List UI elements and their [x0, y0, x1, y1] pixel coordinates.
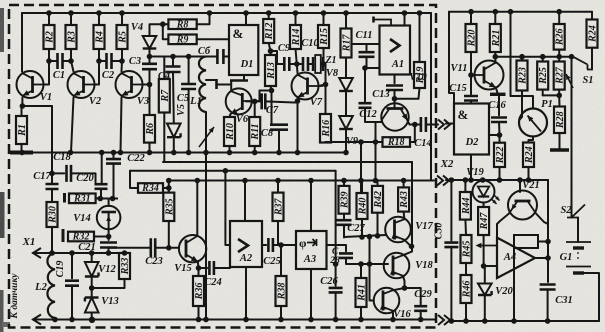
junction: [362, 65, 368, 71]
junction: [203, 150, 209, 156]
wire V15 emitter: [197, 262, 200, 269]
wire R47 to A4 input: [483, 235, 485, 266]
wire rail to R17: [345, 13, 347, 29]
resistor R38: [276, 276, 288, 306]
wire Z1 node to V7 base: [319, 85, 326, 87]
junction: [119, 10, 125, 16]
wire V10 collector left: [376, 120, 383, 123]
junction: [418, 317, 424, 323]
wire S1 to S2: [571, 57, 573, 218]
wire V14 source to C21: [108, 229, 110, 240]
capacitor C29: [414, 306, 427, 311]
junction: [276, 150, 282, 156]
resistor R45: [461, 235, 473, 263]
wire bus4 to R35: [168, 181, 170, 193]
wire V18 emitter down: [403, 276, 405, 288]
junction: [96, 58, 102, 64]
wire: [49, 60, 58, 62]
wire C5 bottom to mid rail: [188, 89, 190, 153]
wire: [343, 181, 345, 186]
wire V4 cathode: [149, 49, 151, 57]
junction: [269, 88, 275, 94]
junction: [402, 10, 408, 16]
wire to S1: [495, 56, 573, 58]
junction: [343, 10, 349, 16]
junction: [556, 93, 562, 99]
wire V2 emitter to mid rail: [71, 98, 74, 153]
resistor R1: [16, 116, 28, 144]
wire: [542, 57, 544, 62]
wire down to C12: [364, 68, 366, 101]
junction: [196, 317, 202, 323]
capacitor C24: [209, 261, 214, 275]
junction: [480, 177, 486, 183]
junction: [545, 239, 551, 245]
capacitor C18: [67, 165, 72, 182]
wire R33 to zener mid: [92, 279, 125, 288]
wire V14 gate pin: [108, 199, 110, 207]
junction: [195, 178, 201, 184]
wire: [498, 122, 501, 135]
capacitor C9: [284, 57, 289, 71]
resistor R26: [554, 24, 566, 50]
wire bus3 to A2 input: [225, 171, 230, 245]
wire X2 to D2 input: [446, 123, 454, 125]
junction: [147, 150, 153, 156]
junction: [223, 168, 229, 174]
wire bus4: [169, 180, 434, 182]
junction: [294, 61, 300, 67]
wire: [91, 277, 93, 298]
resistor R20: [466, 24, 478, 52]
wire right top rail: [449, 11, 592, 13]
junction: [89, 250, 95, 256]
junction: [295, 150, 301, 156]
wire to C16: [498, 96, 500, 116]
resistor R21: [490, 24, 502, 52]
junction: [186, 150, 192, 156]
resistor R33: [119, 253, 131, 279]
wire: [343, 214, 345, 219]
wire V17 emitter to bus2 drop: [404, 240, 411, 247]
wire right bottom rail: [450, 320, 599, 322]
junction: [367, 261, 373, 267]
inductor L1: [189, 57, 206, 113]
wire C20 bottom down: [100, 189, 102, 199]
trimmer arrow R27: [566, 74, 573, 88]
wire R13 node to C7 line: [260, 91, 272, 102]
wire R8 to rail: [197, 13, 210, 24]
wire: [188, 57, 190, 85]
capacitor C6: [217, 49, 223, 64]
junction: [68, 10, 74, 16]
wire feedback right: [538, 241, 548, 243]
transistor V3: [116, 71, 150, 107]
resistor R46: [461, 275, 473, 303]
wire: [403, 181, 405, 188]
junction: [367, 234, 373, 240]
junction: [358, 261, 364, 267]
wire D1 top pin: [245, 13, 247, 25]
junction: [295, 98, 301, 104]
wire R35 to V15 base line: [168, 221, 170, 248]
junction: [68, 58, 74, 64]
capacitor C31: [540, 285, 556, 290]
wire R40 bottom: [361, 219, 363, 237]
junction: [401, 178, 407, 184]
junction: [243, 10, 249, 16]
junction: [468, 9, 474, 15]
wire: [542, 90, 544, 96]
junction: [110, 196, 116, 202]
wire R13 node to C8: [271, 91, 273, 126]
wire bus3 left end to R34: [130, 171, 138, 188]
wire V5 to mid rail: [173, 139, 175, 152]
junction: [147, 82, 153, 88]
resistor R3: [66, 25, 78, 49]
resistor R40: [357, 193, 369, 219]
resistor R17: [341, 29, 353, 58]
wire: [48, 49, 50, 61]
junction: [358, 178, 364, 184]
terminal bar R31: [63, 193, 66, 203]
wire V7 collector: [296, 64, 299, 73]
junction: [481, 263, 487, 269]
wire: [558, 12, 560, 24]
wire V17 base line: [344, 235, 386, 237]
wire: [420, 311, 422, 320]
wire to V18 collector: [403, 246, 412, 255]
junction: [333, 261, 339, 267]
wire: [280, 306, 282, 320]
wire: [63, 60, 72, 62]
wire to V16 base: [370, 236, 374, 300]
junction: [147, 54, 153, 60]
junction: [323, 82, 329, 88]
wire: [96, 197, 101, 199]
wire R30 to X1 line: [51, 227, 53, 253]
junction: [166, 245, 172, 251]
capacitor C27: [337, 220, 352, 225]
A1 aux top wire: [374, 20, 392, 26]
junction: [468, 72, 474, 78]
op-amp A4: [497, 238, 535, 278]
wire R17 to V8: [345, 58, 347, 79]
resistor R19: [414, 62, 426, 88]
transistor V18: [384, 253, 434, 279]
wire: [547, 258, 549, 282]
junction: [278, 317, 284, 323]
wire R37 bottom: [277, 221, 279, 245]
wire C23 to V15 base: [155, 247, 179, 249]
resistor R4: [94, 25, 106, 49]
junction: [89, 285, 95, 291]
wire L1 column to bottom rail: [205, 153, 207, 320]
junction: [166, 178, 172, 184]
wire: [268, 13, 270, 19]
junction: [268, 48, 274, 54]
wire V17 collector to R43: [403, 212, 406, 220]
crystal Z1: [313, 55, 337, 73]
transistor V14 FET: [73, 206, 120, 230]
wire C8 to rail: [278, 130, 280, 153]
wire right column down: [547, 180, 549, 258]
wire R18 right up: [410, 125, 415, 143]
wire V3 collector to C2 node: [121, 61, 124, 72]
capacitor C10: [303, 57, 308, 71]
junction: [160, 21, 166, 27]
connector X1 arrow bottom: [33, 315, 41, 325]
wire: [99, 60, 107, 62]
wire: [465, 263, 467, 275]
dashed border left block: [9, 5, 436, 328]
resistor R6: [144, 115, 156, 143]
wire to V10 base: [394, 99, 396, 109]
wire: [277, 181, 279, 193]
junction: [186, 54, 192, 60]
diode V12: [85, 262, 117, 277]
junction: [111, 150, 117, 156]
junction: [46, 58, 52, 64]
capacitor C2: [107, 53, 112, 69]
wire bus to V21 base: [519, 180, 521, 192]
junction: [19, 150, 25, 156]
wire V6 base right: [252, 100, 261, 102]
wire: [494, 52, 496, 57]
junction: [359, 234, 365, 240]
wire: [21, 106, 23, 116]
capacitor C7: [262, 93, 266, 109]
wire R23 to P1: [519, 91, 522, 121]
wire: [394, 90, 396, 99]
junction: [412, 122, 418, 128]
wire tap to V6 collector: [217, 84, 232, 86]
wire R7 bottom to bus2: [163, 113, 165, 163]
transistor V6: [226, 88, 252, 125]
wire: [361, 181, 363, 194]
wire: [52, 172, 64, 174]
resistor R34: [138, 183, 163, 194]
transistor V2: [68, 71, 102, 107]
capacitor C5: [181, 84, 196, 89]
wire bus2 drop to V17 emitter: [411, 162, 413, 246]
wire R20 to C15: [470, 52, 472, 94]
wire to A1 lower input: [365, 67, 380, 69]
wire: [254, 146, 256, 153]
junction: [497, 177, 503, 183]
junction: [321, 61, 327, 67]
wire: [71, 253, 73, 278]
wire: [426, 124, 438, 126]
junction: [358, 139, 364, 145]
junction: [321, 10, 327, 16]
wire C6 to D1: [223, 56, 229, 58]
wire: [113, 153, 115, 158]
junction: [196, 265, 202, 271]
resistor R24: [523, 143, 535, 168]
wire: [48, 13, 50, 25]
transistor V16: [374, 288, 412, 320]
wire rail to R24: [591, 12, 593, 20]
ground bar: [10, 151, 33, 155]
wire left rail to V1 collector: [21, 13, 23, 72]
capacitor C13: [386, 86, 403, 91]
junction: [89, 317, 95, 323]
wire: [558, 90, 560, 96]
wire V16 emitter to rail: [392, 311, 394, 320]
junction: [373, 139, 379, 145]
wire V6 base line: [246, 100, 262, 102]
junction: [402, 285, 408, 291]
adjustable core arrow L1: [199, 127, 214, 147]
wire rail to D2: [449, 12, 454, 104]
artifact: [0, 8, 4, 52]
wire A3 out to C28: [327, 245, 347, 251]
junction: [119, 58, 125, 64]
junction: [308, 317, 314, 323]
resistor R35: [163, 193, 175, 221]
wire S2 to G1: [577, 218, 579, 243]
connector X2 arrow low: [437, 176, 449, 186]
wire: [464, 180, 466, 192]
wire: [229, 146, 231, 153]
transistor V11: [471, 61, 504, 90]
resistor R42: [372, 186, 384, 213]
junction: [511, 318, 517, 324]
wire: [71, 286, 73, 320]
wire R18 line to bus4: [360, 142, 362, 181]
wire C21 to X1 line: [108, 248, 110, 254]
wire V10 collector column to bus4: [375, 122, 377, 181]
wire R15 bottom: [323, 48, 325, 64]
junction: [508, 9, 514, 15]
artifact: [2, 322, 10, 327]
junction: [493, 54, 499, 60]
wire mid rail: [10, 152, 346, 154]
transistor V21: [508, 180, 540, 220]
wire V6 collector to D1 bar: [230, 81, 232, 92]
wire V16 collector up: [393, 288, 405, 290]
resistor R47: [478, 207, 490, 235]
junction: [52, 317, 58, 323]
capacitor C25: [268, 238, 273, 252]
wire A2 bottom pin: [245, 267, 247, 320]
junction: [118, 150, 124, 156]
capacitor C15: [464, 96, 478, 101]
junction: [266, 10, 272, 16]
wire: [558, 95, 560, 106]
wire: [172, 57, 174, 67]
junction: [171, 150, 177, 156]
junction: [463, 177, 469, 183]
wire rail drop to bus4: [430, 13, 432, 181]
junction: [49, 250, 55, 256]
wire C27 down: [343, 225, 345, 238]
resistor R32: [68, 232, 94, 243]
wire: [558, 57, 560, 62]
junction: [341, 178, 347, 184]
junction: [49, 171, 55, 177]
wire bottom rail: [33, 319, 436, 321]
transistor V17: [385, 217, 433, 243]
capacitor C14: [421, 117, 426, 132]
resistor R7: [159, 79, 171, 113]
wire: [163, 187, 169, 189]
wire: [308, 63, 313, 65]
wire R32 to V14 source: [94, 236, 109, 238]
junction: [375, 233, 381, 239]
wire: [198, 268, 200, 276]
resistor R36: [193, 276, 205, 306]
wire: [465, 303, 467, 321]
wire V11 emitter: [496, 88, 498, 94]
wire V9 to rail: [345, 129, 347, 153]
wire D2 output: [489, 134, 500, 136]
wire V2 collector to C1 node: [71, 61, 74, 72]
junction: [207, 10, 213, 16]
A4 input arrow: [478, 245, 497, 247]
junction: [122, 250, 128, 256]
wire: [51, 173, 53, 184]
wire C28 to V18 base: [346, 258, 388, 264]
resistor R28: [554, 107, 566, 134]
junction: [482, 318, 488, 324]
wire C4 to V5: [172, 72, 175, 124]
wire D2 bottom pin: [470, 155, 472, 181]
resistor R39: [339, 186, 351, 214]
capacitor C11: [359, 52, 375, 57]
wire base node down to R11: [254, 101, 256, 117]
resistor R12: [263, 19, 275, 43]
capacitor C19: [65, 281, 79, 286]
meter P1: [519, 99, 553, 137]
wire bus3: [130, 170, 336, 172]
transistor V15: [174, 235, 206, 274]
wire: [289, 63, 301, 65]
wire: [484, 266, 486, 284]
wire: [377, 181, 379, 186]
resistor R5: [117, 25, 129, 49]
wire: [296, 49, 297, 64]
resistor R13: [265, 55, 277, 86]
junction: [526, 177, 532, 183]
junction: [293, 10, 299, 16]
wire A4 lower input: [484, 265, 497, 267]
logic gate D2: [454, 104, 489, 155]
wire C17 to R30: [51, 189, 53, 202]
wire: [559, 133, 561, 149]
junction: [98, 196, 104, 202]
junction: [166, 185, 172, 191]
wire R24 to S1 contact: [591, 48, 593, 70]
junction: [252, 99, 258, 105]
wire bus4 to A2 top: [244, 181, 246, 222]
junction: [20, 103, 26, 109]
capacitor C17: [46, 184, 59, 189]
resistor R11: [249, 117, 261, 146]
wire X1 top line: [33, 252, 125, 254]
wire C25 to A3: [273, 244, 296, 246]
wire: [323, 13, 325, 25]
junction: [343, 150, 349, 156]
D1 bottom bar: [230, 79, 248, 82]
wire: [335, 293, 337, 320]
wire: [121, 49, 123, 61]
wire A3 bottom: [310, 269, 312, 320]
wire R9 to D1 input: [197, 38, 229, 40]
wire: [464, 220, 467, 235]
wire V15 collector to bus4: [196, 181, 198, 237]
